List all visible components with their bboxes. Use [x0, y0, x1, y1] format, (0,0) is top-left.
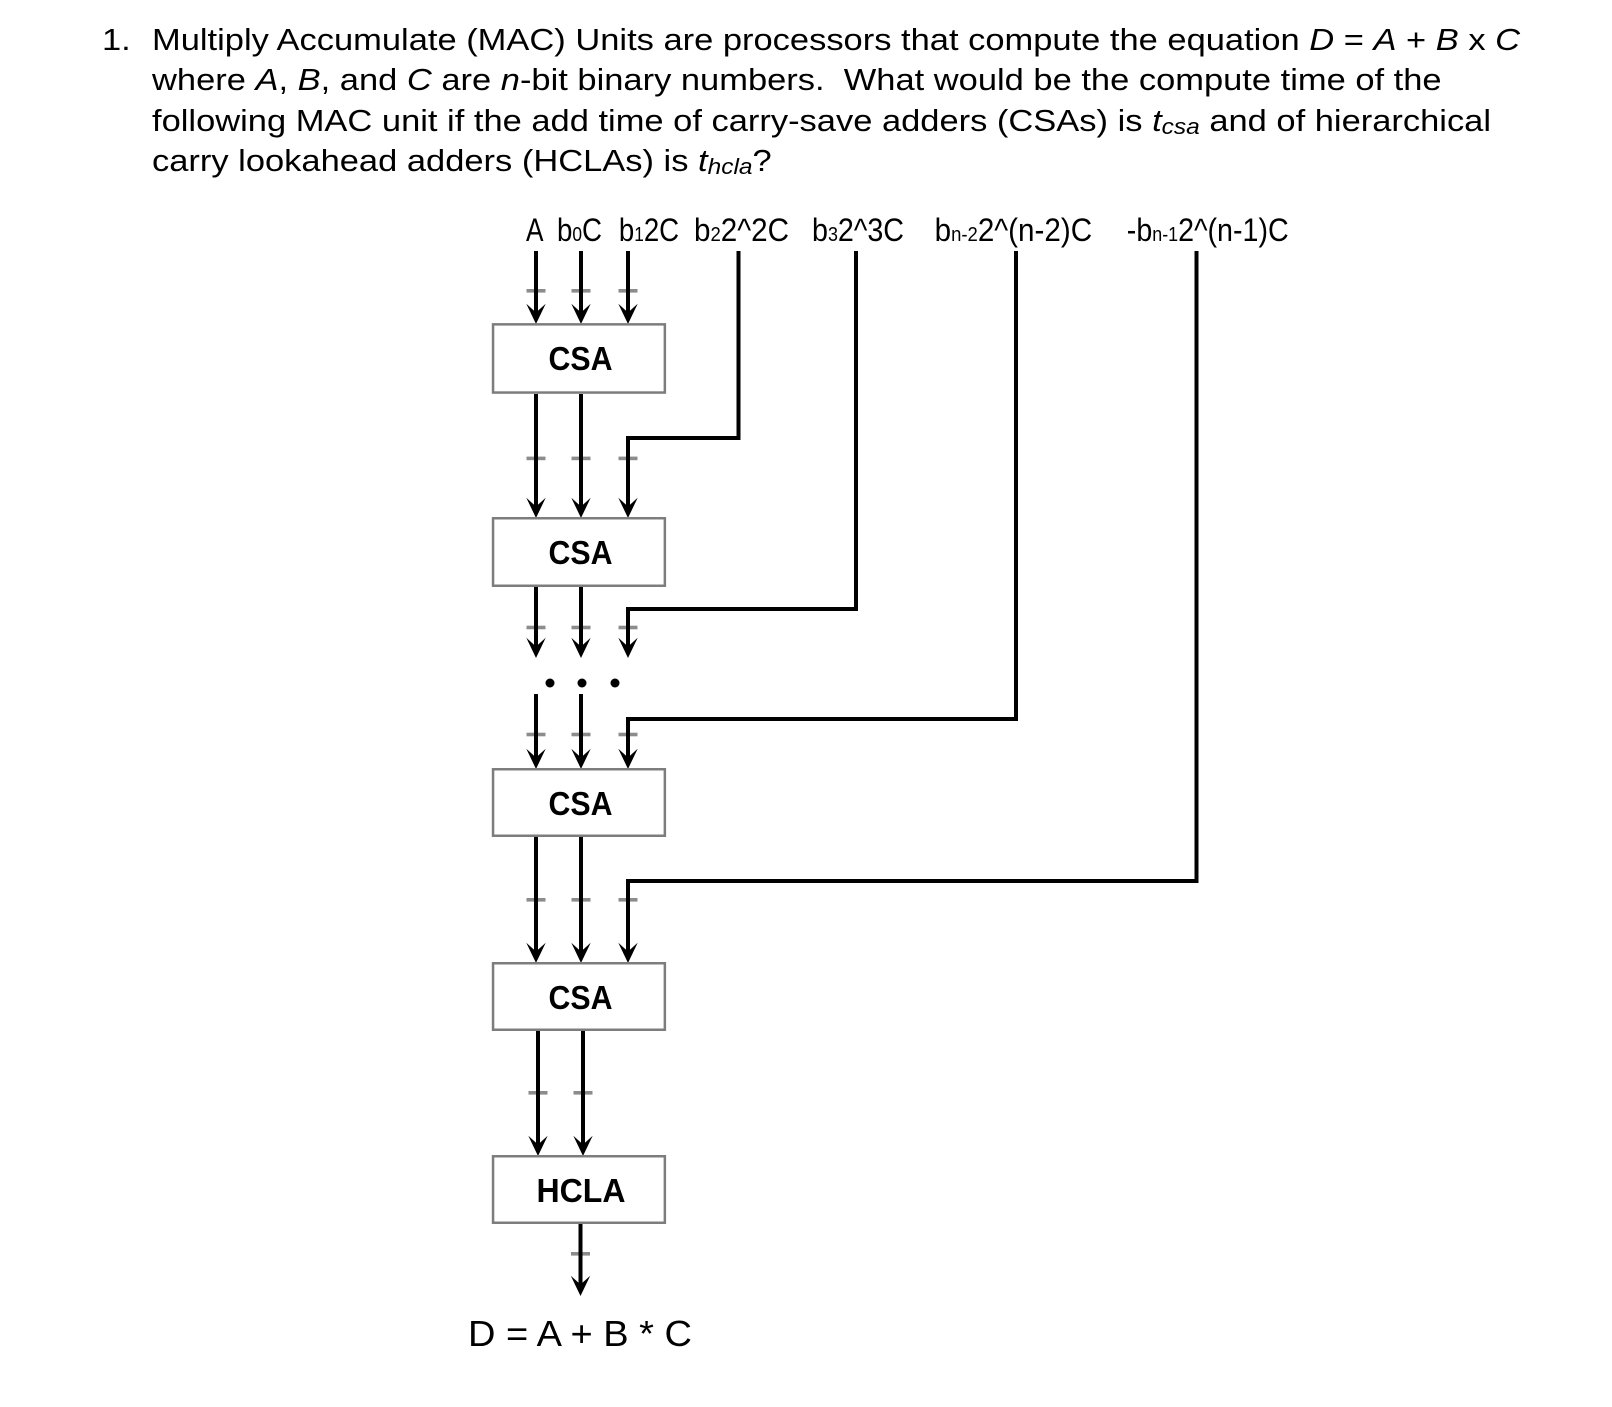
bus tick row D input 3: [619, 733, 638, 737]
svg-text:CSA: CSA: [549, 785, 613, 822]
bus tick row A input 1: [527, 289, 546, 293]
bus tick row C input 2: [572, 626, 591, 630]
wire b32^3C feed: [628, 251, 856, 650]
HCLA box U5: [493, 1156, 665, 1223]
paragraph line 2: [152, 64, 1442, 95]
wire CSA3 carry out to CSA4: [579, 837, 583, 955]
bus tick row B input 2: [572, 457, 591, 461]
bus tick row B input 3: [619, 457, 638, 461]
svg-text:CSA: CSA: [549, 340, 613, 377]
svg-text:b0C: b0C: [557, 212, 602, 248]
svg-text:CSA: CSA: [549, 979, 613, 1016]
svg-text:b22^2C: b22^2C: [694, 212, 789, 248]
bus tick row C input 1: [527, 626, 546, 630]
wire A into CSA1: [534, 251, 538, 316]
wire bn-22^(n-2)C feed to CSA3: [628, 251, 1016, 761]
bus tick row C input 3: [619, 626, 638, 630]
svg-text:A: A: [526, 212, 544, 248]
paragraph line 4: [152, 145, 772, 182]
wire HCLA result out: [579, 1224, 583, 1288]
wire CSA3 sum out to CSA4: [534, 837, 538, 955]
wire into CSA3 input 2: [579, 694, 583, 761]
paragraph line 3: [152, 105, 1491, 142]
bus tick row F input 2: [574, 1091, 593, 1095]
bus tick row A input 3: [619, 289, 638, 293]
bus tick row A input 2: [572, 289, 591, 293]
svg-text:-bn-12^(n-1)C: -bn-12^(n-1)C: [1127, 212, 1289, 248]
bus tick row B input 1: [527, 457, 546, 461]
bus tick row D input 2: [572, 733, 591, 737]
wire CSA2 carry out: [579, 587, 583, 650]
svg-text:b32^3C: b32^3C: [812, 212, 904, 248]
CSA box U2: [493, 518, 665, 586]
bus tick row F input 1: [529, 1091, 548, 1095]
ellipsis dot 1: [546, 679, 555, 688]
ellipsis dot 3: [611, 679, 620, 688]
wire CSA2 sum out: [534, 587, 538, 650]
wire into CSA3 input 1: [534, 694, 538, 761]
wire CSA4 carry out to HCLA: [581, 1031, 585, 1148]
CSA box U4: [493, 963, 665, 1030]
bus tick row E input 2: [572, 898, 591, 902]
problem number: [102, 24, 131, 55]
svg-text:b12C: b12C: [619, 212, 679, 248]
svg-text:bn-22^(n-2)C: bn-22^(n-2)C: [935, 212, 1093, 248]
wire b12C into CSA1: [626, 251, 630, 316]
wire CSA1 sum out to CSA2: [534, 394, 538, 510]
wire CSA4 sum out to HCLA: [536, 1031, 540, 1148]
svg-text:CSA: CSA: [549, 534, 613, 571]
wire b22^2C feed to CSA2: [628, 251, 739, 510]
bus tick row E input 3: [619, 898, 638, 902]
bus tick output: [571, 1252, 590, 1256]
CSA box U3: [493, 769, 665, 836]
wire CSA1 carry out to CSA2: [579, 394, 583, 510]
CSA box U1: [493, 324, 665, 392]
wire b0C into CSA1: [579, 251, 583, 316]
paragraph line 1: [152, 24, 1520, 55]
svg-text:D = A + B * C: D = A + B * C: [468, 1313, 692, 1354]
bus tick row D input 1: [527, 733, 546, 737]
wire -bn-12^(n-1)C feed to CSA4: [628, 251, 1197, 955]
ellipsis dot 2: [578, 679, 587, 688]
svg-text:HCLA: HCLA: [537, 1172, 626, 1209]
bus tick row E input 1: [527, 898, 546, 902]
